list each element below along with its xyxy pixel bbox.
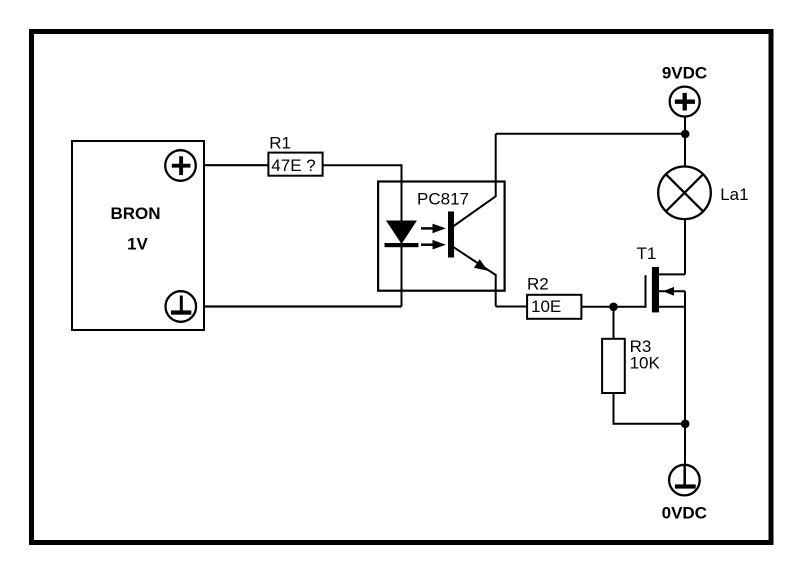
- transistor T1 gate: [645, 275, 647, 308]
- lamp La1: [658, 167, 711, 220]
- label 9VDC: [662, 64, 707, 83]
- wire LED cathode to source ground: [204, 305, 402, 307]
- junction at R3 tap: [609, 303, 618, 312]
- wire emitter to R2: [496, 306, 528, 308]
- phototransistor emitter with arrow: [453, 247, 496, 307]
- wire source + to R1: [204, 164, 268, 166]
- LED of optocoupler: [385, 221, 419, 248]
- label 0VDC: [662, 504, 707, 523]
- light arrow upper: [421, 224, 446, 234]
- svg-text:9VDC: 9VDC: [662, 64, 707, 83]
- svg-text:R2: R2: [527, 274, 549, 293]
- svg-text:PC817: PC817: [417, 190, 469, 209]
- label T1: [637, 244, 657, 263]
- source BRON box: [72, 141, 204, 330]
- label La1: [720, 185, 748, 204]
- ground terminal 0VDC: [669, 465, 700, 496]
- wire R2 to gate: [581, 306, 646, 308]
- ground terminal of source: [166, 291, 197, 322]
- svg-text:10E: 10E: [531, 297, 561, 316]
- svg-text:T1: T1: [637, 244, 657, 263]
- value 47E ?: [271, 156, 315, 175]
- value 10E: [531, 297, 561, 316]
- phototransistor base bar: [448, 212, 454, 258]
- junction at 9VDC rail: [681, 130, 690, 139]
- optocoupler U1 PC817 box: [378, 182, 505, 291]
- svg-text:10K: 10K: [630, 353, 661, 372]
- wire 9VDC to lamp: [684, 118, 686, 167]
- label PC817: [417, 190, 469, 209]
- svg-text:R1: R1: [269, 134, 291, 153]
- label BRON 1V: [110, 204, 160, 254]
- transistor T1 source lead: [659, 306, 685, 308]
- junction at 0VDC rail: [681, 420, 690, 429]
- transistor T1 body lead with arrow: [659, 287, 685, 296]
- svg-text:BRON: BRON: [110, 204, 160, 223]
- wire lamp to drain: [684, 220, 686, 275]
- label R2: [527, 274, 549, 293]
- svg-text:0VDC: 0VDC: [662, 504, 707, 523]
- transistor T1 drain lead: [659, 273, 685, 275]
- + terminal of source: [165, 150, 196, 181]
- wire junction to R3: [613, 307, 615, 339]
- transistor T1 channel bar: [652, 267, 659, 312]
- resistor R3: [602, 339, 625, 393]
- svg-text:1V: 1V: [127, 235, 148, 254]
- phototransistor collector: [453, 134, 496, 227]
- svg-text:La1: La1: [720, 185, 748, 204]
- resistor R2: [527, 295, 581, 319]
- label R3 10K: [630, 337, 661, 373]
- light arrow lower: [421, 240, 446, 250]
- wire R3 to 0VDC rail: [614, 393, 686, 424]
- wire source down to 0VDC: [684, 291, 686, 465]
- svg-text:47E ?: 47E ?: [271, 156, 315, 175]
- resistor R1: [268, 153, 322, 176]
- wire R1 to LED anode: [323, 165, 402, 306]
- label R1: [269, 134, 291, 153]
- supply terminal 9VDC: [670, 87, 700, 117]
- wire collector to 9VDC rail: [496, 133, 685, 135]
